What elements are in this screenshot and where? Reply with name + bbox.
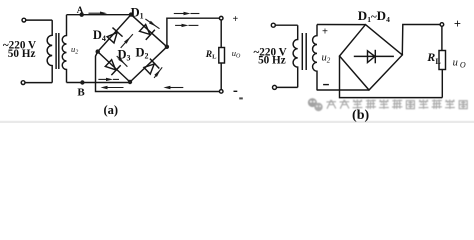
current arrow bottom rail right [163, 86, 183, 89]
terminal top-left [22, 18, 26, 22]
svg-text:RL: RL [205, 50, 217, 60]
wire plus riser from right vertex [167, 18, 220, 47]
current arrow top rail upper [174, 12, 200, 15]
output terminal + [219, 16, 223, 20]
junction node A [80, 13, 84, 17]
svg-text:D4: D4 [93, 28, 106, 43]
svg-text:+: + [322, 27, 328, 38]
terminal bottom-left (b) [273, 85, 277, 89]
current arrow beside D3 [117, 56, 128, 67]
terminal bottom-left [21, 81, 25, 85]
resistor RL box (b) [439, 51, 446, 70]
svg-text:+: + [232, 14, 238, 25]
output terminal - [219, 90, 223, 94]
load lead top [220, 20, 222, 48]
load lead top (b) [441, 26, 443, 50]
primary winding L1 [47, 20, 52, 83]
wire primary top [26, 19, 52, 21]
svg-text:D3: D3 [118, 47, 131, 62]
current arrow beside D1 [145, 19, 159, 29]
output terminal + (b) [440, 23, 444, 27]
bridge edge D1 (top-right) [131, 15, 167, 47]
wire primary top (b) [276, 24, 298, 26]
diode D4 [106, 28, 123, 45]
wire plus riser (b) [402, 25, 440, 56]
terminal top-left (b) [271, 23, 275, 27]
wire A [67, 14, 132, 16]
inner diode lead [354, 55, 394, 57]
current arrow on wire A [89, 12, 108, 15]
diode D1 [138, 23, 155, 40]
watermark logo bubbles [308, 98, 323, 111]
current arrow on wire B [98, 78, 119, 81]
svg-text:B: B [77, 87, 85, 99]
transformer core [55, 33, 57, 69]
junction top vertex [129, 12, 133, 16]
svg-text:+: + [454, 17, 461, 31]
bridge edge D2 (bottom-right) [130, 47, 167, 82]
inner diode triangle [368, 51, 375, 63]
svg-text:uO: uO [453, 57, 466, 69]
current arrow beside D4 [121, 34, 133, 48]
wire AC top (b) [317, 24, 366, 26]
stray dark dash between figures [239, 97, 243, 99]
svg-text:D2: D2 [136, 46, 149, 61]
junction bottom vertex [128, 80, 132, 84]
minus sign (a) [234, 90, 238, 92]
diode D3 [104, 58, 121, 75]
wire primary bottom (b) [277, 86, 298, 88]
svg-text:(a): (a) [104, 103, 119, 117]
junction node B [80, 80, 84, 84]
svg-text:50 Hz: 50 Hz [8, 48, 36, 60]
wire minus (b) [340, 56, 443, 98]
secondary winding u2 (b) [313, 25, 317, 91]
wire minus drop from left vertex [96, 52, 220, 92]
svg-text:u2: u2 [322, 53, 331, 65]
wire B [67, 82, 131, 84]
inner diode bar [374, 50, 376, 64]
svg-text:u2: u2 [71, 44, 78, 56]
bridge edge D4 (left-top) [98, 15, 131, 52]
secondary winding u2 [62, 15, 66, 83]
load lead bottom [220, 63, 222, 90]
load lead bottom (b) [441, 70, 443, 98]
current arrow bottom rail left [101, 86, 124, 89]
diode D2 [142, 59, 159, 76]
svg-text:50 Hz: 50 Hz [258, 54, 286, 66]
svg-text:D1: D1 [131, 5, 144, 20]
svg-text:D1~D4: D1~D4 [358, 8, 390, 24]
resistor RL box [219, 48, 225, 64]
transformer core (b) [301, 33, 303, 70]
wire primary bottom [25, 82, 52, 84]
current arrow beside D2 [154, 67, 162, 78]
primary winding (b) [293, 25, 298, 87]
svg-text:uO: uO [232, 48, 241, 60]
watermark gray text row [326, 100, 467, 110]
junction right vertex [165, 45, 169, 49]
bridge edge D3 (left-bottom) [98, 52, 130, 82]
current arrow top rail lower [175, 24, 198, 27]
faint bottom strip [0, 121, 474, 123]
minus sign u2 (b) [323, 84, 329, 86]
wire AC bottom (b) [317, 89, 369, 91]
svg-text:(b): (b) [352, 108, 369, 123]
junction left vertex [96, 49, 100, 53]
svg-text:A: A [77, 5, 84, 15]
bridge diamond (b) [340, 25, 403, 90]
